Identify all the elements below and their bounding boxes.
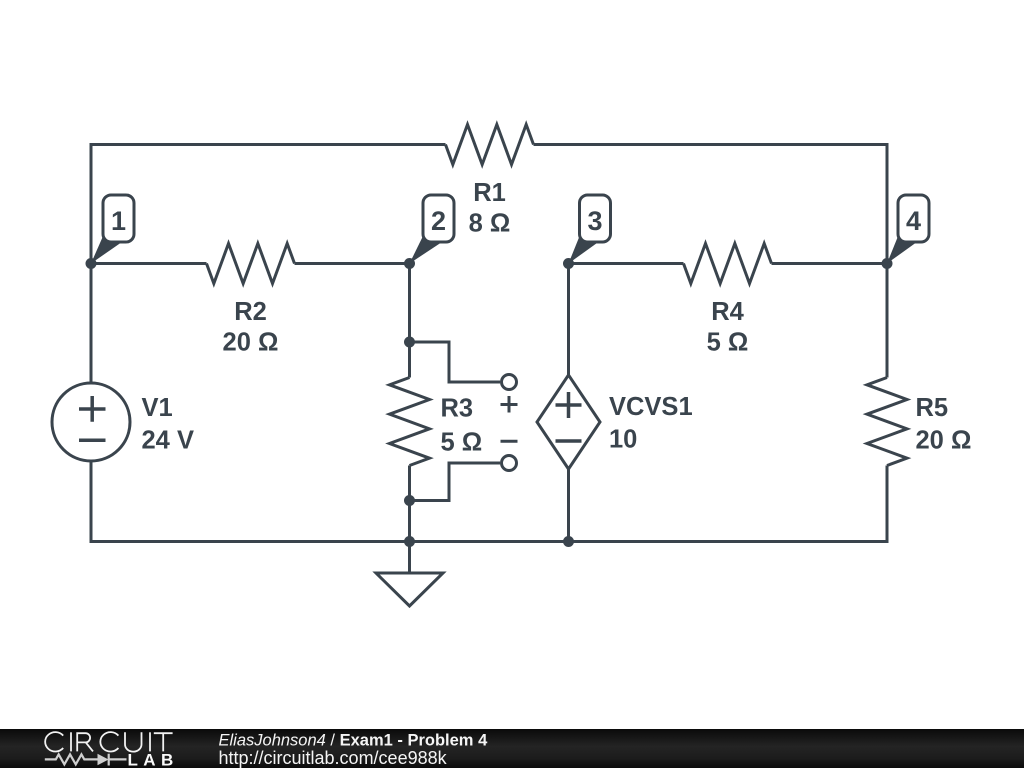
resistor R2 body <box>207 244 295 284</box>
resistor R4 body <box>684 244 772 284</box>
svg-text:4: 4 <box>906 206 921 236</box>
node 4 label box <box>898 195 929 242</box>
svg-text:2: 2 <box>431 206 446 236</box>
R3 probe minus sign <box>501 440 518 443</box>
node 1 label box <box>103 195 134 242</box>
svg-text:3: 3 <box>587 206 602 236</box>
svg-text:EliasJohnson4 / Exam1 - Proble: EliasJohnson4 / Exam1 - Problem 4 <box>219 732 489 750</box>
CircuitLab logo wordmark CIRCUIT <box>45 732 172 752</box>
VCVS1 plus sign <box>556 392 582 418</box>
wire top-right: top rail from R1 to right column down to R5 <box>534 145 888 378</box>
wire R2 to node2 <box>295 262 410 265</box>
wire VCVS1 to bottom rail <box>567 469 570 542</box>
junction dot VCVS bottom <box>563 536 574 547</box>
R3 probe wire lower <box>410 463 501 501</box>
ground stub wire <box>408 542 411 574</box>
node 3 label box <box>580 195 611 242</box>
svg-text:R2: R2 <box>234 298 267 326</box>
svg-text:V1: V1 <box>142 394 173 422</box>
junction dot node 2 <box>404 258 415 269</box>
wire bottom rail <box>91 461 887 542</box>
V1 plus sign <box>79 396 106 422</box>
R3 probe terminal upper <box>502 375 517 390</box>
R3 probe terminal lower <box>502 456 517 471</box>
resistor R3 body <box>390 378 430 466</box>
R3 probe plus sign <box>501 396 518 413</box>
node 3 pointer <box>569 235 598 264</box>
wire R3 to bottom rail <box>408 466 411 542</box>
junction dot node 4 <box>882 258 893 269</box>
junction dot ground <box>404 536 415 547</box>
wire node3 down to VCVS1 <box>567 264 570 376</box>
resistor R1 body <box>446 125 534 165</box>
wire R4 to node4 <box>772 262 888 265</box>
junction dot node 3 <box>563 258 574 269</box>
wire node3 to R4 <box>569 262 684 265</box>
footer bar <box>0 729 1024 768</box>
svg-text:R5: R5 <box>916 394 949 422</box>
svg-text:R1: R1 <box>473 179 506 207</box>
svg-text:R3: R3 <box>441 395 474 423</box>
node 2 pointer <box>410 235 441 264</box>
svg-text:5 Ω: 5 Ω <box>441 429 483 457</box>
V1 minus sign <box>79 439 106 443</box>
svg-text:5 Ω: 5 Ω <box>707 329 749 357</box>
junction dot R3 top tap <box>404 337 415 348</box>
svg-text:8 Ω: 8 Ω <box>469 210 511 238</box>
svg-text:10: 10 <box>609 426 637 454</box>
svg-text:1: 1 <box>111 206 126 236</box>
VCVS1 minus sign <box>556 439 582 443</box>
node 1 pointer <box>91 235 121 264</box>
ground symbol <box>376 573 443 606</box>
svg-text:LAB: LAB <box>128 751 179 768</box>
node 4 pointer <box>887 235 916 264</box>
wire top-left: node1 column up and top rail to R1 <box>91 145 446 384</box>
wire node2 down to R3 <box>408 264 411 378</box>
node 2 label box <box>423 195 454 242</box>
voltage source V1 circle <box>52 383 130 461</box>
junction dot node 1 <box>86 258 97 269</box>
junction dot R3 bottom tap <box>404 495 415 506</box>
CircuitLab logo resistor-diode glyph <box>45 754 127 766</box>
VCVS1 diamond <box>537 375 600 469</box>
svg-text:24 V: 24 V <box>142 427 194 455</box>
svg-text:R4: R4 <box>711 298 744 326</box>
svg-text:VCVS1: VCVS1 <box>609 393 693 421</box>
R3 probe wire upper <box>410 342 501 382</box>
resistor R5 body <box>867 378 907 466</box>
svg-text:http://circuitlab.com/cee988k: http://circuitlab.com/cee988k <box>219 748 448 768</box>
wire node1 to R2 <box>91 262 207 265</box>
svg-text:20 Ω: 20 Ω <box>916 427 972 455</box>
svg-text:20 Ω: 20 Ω <box>223 329 279 357</box>
